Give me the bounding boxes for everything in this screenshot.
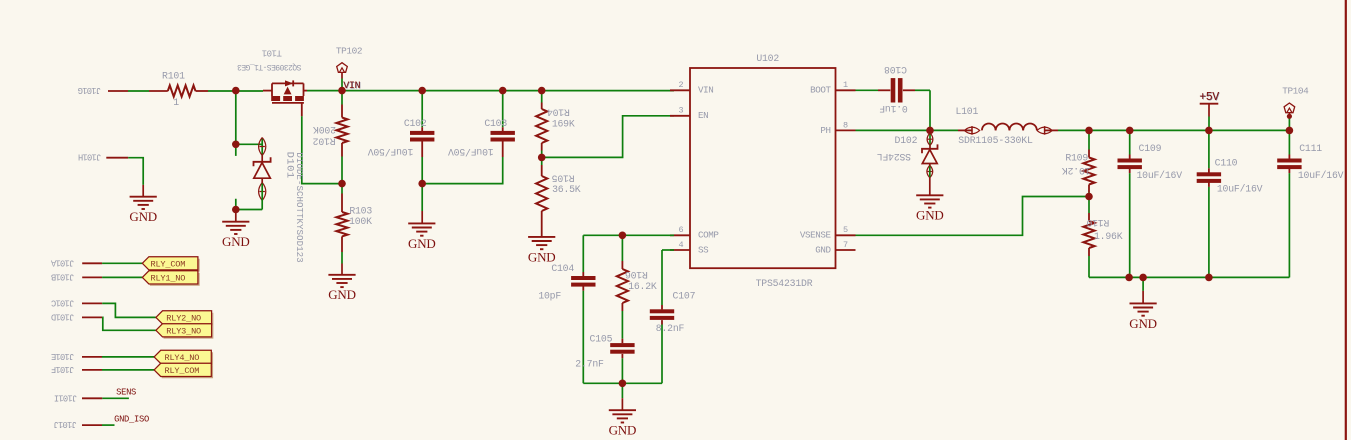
svg-text:2: 2 bbox=[679, 80, 684, 90]
svg-text:RLY_COM: RLY_COM bbox=[151, 259, 186, 269]
svg-text:10uF/16V: 10uF/16V bbox=[1217, 184, 1263, 195]
svg-text:RLY3_NO: RLY3_NO bbox=[166, 326, 201, 336]
svg-text:1: 1 bbox=[843, 80, 848, 90]
svg-text:C107: C107 bbox=[673, 290, 696, 301]
svg-text:6: 6 bbox=[679, 225, 684, 235]
svg-text:J101H: J101H bbox=[78, 152, 101, 162]
svg-text:8.2nF: 8.2nF bbox=[656, 323, 685, 334]
svg-text:U102: U102 bbox=[756, 53, 779, 64]
svg-text:J101D: J101D bbox=[51, 311, 74, 321]
svg-text:EN: EN bbox=[698, 110, 708, 121]
svg-text:L101: L101 bbox=[955, 106, 978, 117]
svg-text:SQ2309ES-T1_GE3: SQ2309ES-T1_GE3 bbox=[237, 62, 302, 71]
svg-text:GND: GND bbox=[609, 423, 637, 438]
svg-text:GND: GND bbox=[129, 209, 157, 224]
svg-text:10uF/50V: 10uF/50V bbox=[448, 146, 494, 157]
svg-text:GND: GND bbox=[222, 234, 250, 249]
svg-text:R110: R110 bbox=[1086, 217, 1109, 228]
svg-text:R102: R102 bbox=[313, 136, 336, 147]
svg-text:GND: GND bbox=[916, 208, 944, 223]
svg-text:C102: C102 bbox=[404, 118, 427, 129]
svg-text:T101: T101 bbox=[262, 48, 282, 58]
svg-text:J101C: J101C bbox=[51, 297, 74, 307]
svg-text:C108: C108 bbox=[884, 64, 907, 75]
svg-text:GND_ISO: GND_ISO bbox=[114, 415, 149, 425]
svg-text:10uF/16V: 10uF/16V bbox=[1298, 170, 1344, 181]
svg-text:RLY2_NO: RLY2_NO bbox=[166, 313, 201, 323]
svg-text:7: 7 bbox=[843, 240, 848, 250]
svg-text:R104: R104 bbox=[547, 106, 570, 117]
svg-text:COMP: COMP bbox=[698, 230, 719, 241]
svg-text:GND: GND bbox=[1129, 316, 1157, 331]
svg-text:GND: GND bbox=[815, 244, 831, 255]
svg-text:C103: C103 bbox=[484, 118, 507, 129]
svg-text:D102: D102 bbox=[895, 135, 918, 146]
svg-text:10uF/50V: 10uF/50V bbox=[368, 146, 414, 157]
svg-text:SS24FL: SS24FL bbox=[877, 151, 911, 162]
svg-text:J101J: J101J bbox=[54, 419, 77, 429]
svg-text:C111: C111 bbox=[1299, 143, 1322, 154]
svg-text:TP104: TP104 bbox=[1282, 86, 1309, 97]
svg-text:VIN: VIN bbox=[343, 81, 360, 92]
svg-text:RLY4_NO: RLY4_NO bbox=[165, 353, 200, 363]
svg-text:VIN: VIN bbox=[698, 85, 713, 96]
svg-text:100K: 100K bbox=[349, 216, 372, 227]
svg-text:5: 5 bbox=[843, 225, 848, 235]
svg-text:3: 3 bbox=[679, 106, 684, 116]
svg-text:10.2K: 10.2K bbox=[1062, 165, 1091, 176]
svg-text:DIODE-SCHOTTKYSOD123: DIODE-SCHOTTKYSOD123 bbox=[294, 152, 305, 262]
svg-text:+5V: +5V bbox=[1199, 91, 1219, 104]
svg-text:C109: C109 bbox=[1139, 143, 1162, 154]
svg-text:C104: C104 bbox=[551, 263, 574, 274]
svg-text:16.2K: 16.2K bbox=[628, 281, 657, 292]
svg-text:R109: R109 bbox=[1065, 153, 1088, 164]
svg-text:SDR1105-330KL: SDR1105-330KL bbox=[958, 135, 1033, 146]
svg-text:TP102: TP102 bbox=[336, 45, 362, 56]
svg-text:R101: R101 bbox=[162, 71, 185, 82]
svg-text:R105: R105 bbox=[552, 172, 575, 183]
svg-text:PH: PH bbox=[820, 125, 830, 136]
svg-text:200K: 200K bbox=[313, 124, 336, 135]
svg-text:8: 8 bbox=[843, 120, 848, 130]
svg-text:0.1uF: 0.1uF bbox=[879, 103, 908, 114]
svg-text:J101B: J101B bbox=[51, 271, 74, 281]
svg-text:RLY_COM: RLY_COM bbox=[165, 366, 200, 376]
svg-text:1: 1 bbox=[173, 97, 179, 108]
svg-text:J101A: J101A bbox=[50, 257, 74, 267]
svg-text:GND: GND bbox=[408, 236, 436, 251]
svg-text:VSENSE: VSENSE bbox=[800, 230, 832, 241]
svg-text:4: 4 bbox=[679, 240, 684, 250]
svg-text:36.5K: 36.5K bbox=[552, 184, 581, 195]
svg-text:J101G: J101G bbox=[78, 85, 101, 95]
svg-text:RLY1_NO: RLY1_NO bbox=[151, 273, 186, 283]
svg-text:C110: C110 bbox=[1215, 158, 1238, 169]
svg-text:J101I: J101I bbox=[54, 392, 77, 402]
svg-text:SENS: SENS bbox=[116, 387, 136, 397]
svg-text:BOOT: BOOT bbox=[810, 85, 831, 96]
svg-text:C105: C105 bbox=[590, 333, 613, 344]
svg-text:R103: R103 bbox=[349, 205, 372, 216]
svg-text:2.7nF: 2.7nF bbox=[575, 358, 604, 369]
svg-text:J101F: J101F bbox=[51, 364, 74, 374]
svg-text:169K: 169K bbox=[552, 119, 575, 130]
svg-text:D101: D101 bbox=[283, 152, 295, 179]
svg-text:10pF: 10pF bbox=[538, 290, 561, 301]
svg-text:SS: SS bbox=[698, 244, 709, 255]
svg-text:10uF/16V: 10uF/16V bbox=[1136, 170, 1182, 181]
svg-text:R106: R106 bbox=[625, 269, 648, 280]
svg-text:TPS54231DR: TPS54231DR bbox=[756, 278, 813, 289]
svg-text:1.96K: 1.96K bbox=[1094, 231, 1123, 242]
svg-text:J101E: J101E bbox=[51, 351, 74, 361]
svg-text:GND: GND bbox=[328, 287, 356, 302]
